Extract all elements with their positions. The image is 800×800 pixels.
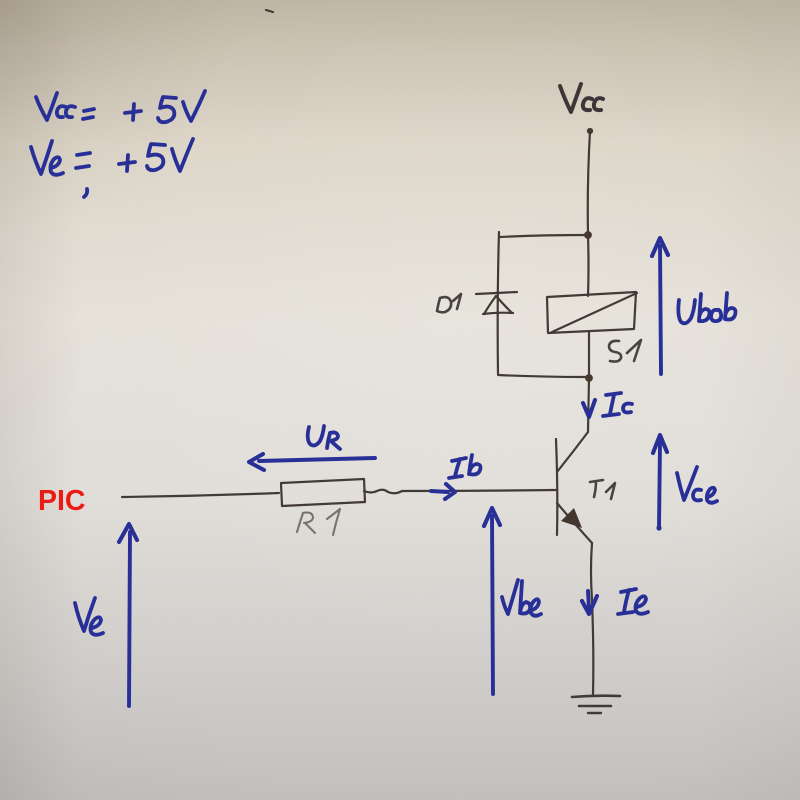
svg-text:PIC: PIC	[38, 485, 86, 517]
